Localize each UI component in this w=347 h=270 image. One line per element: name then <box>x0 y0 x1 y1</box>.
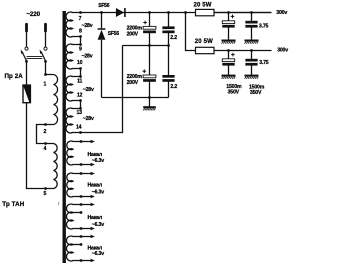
svg-text:~28v: ~28v <box>82 23 93 29</box>
filament winding 4 node top <box>80 235 83 238</box>
wire pin 10 to pin 11 <box>80 69 82 77</box>
node pin 4 <box>44 142 47 145</box>
switch blade L <box>21 50 27 62</box>
secondary winding 9-10 <box>66 44 80 69</box>
secondary winding 13-14 <box>66 108 80 133</box>
primary winding 1-2 <box>46 75 58 125</box>
svg-text:Пр 2А: Пр 2А <box>5 73 24 80</box>
svg-text:7: 7 <box>79 16 82 22</box>
wire plug L to switch <box>26 32 28 47</box>
wire plug N to switch <box>45 32 47 47</box>
node mid rail cap2 <box>167 44 170 47</box>
capacitor 2200m lower <box>143 75 156 82</box>
ground under C8 <box>245 76 259 79</box>
switch contact L <box>25 47 28 50</box>
wire pin 14 return <box>81 46 123 133</box>
resistor 20 5W upper <box>196 9 215 15</box>
node row2 C8 <box>250 49 253 52</box>
svg-text:200V: 200V <box>127 80 139 86</box>
switch contact N <box>44 47 47 50</box>
filament winding 3 arrow bottom <box>91 227 95 230</box>
svg-text:3.75: 3.75 <box>259 24 269 30</box>
svg-text:300v: 300v <box>276 10 287 16</box>
filament winding 4 node bottom <box>80 259 83 262</box>
node pin 1 <box>44 73 47 76</box>
svg-text:20 5W: 20 5W <box>195 39 213 45</box>
svg-text:350V: 350V <box>250 90 262 96</box>
wire ground rail <box>102 97 169 99</box>
filament winding 1 node top <box>80 140 83 143</box>
filament winding 1 arrow bottom <box>91 163 95 166</box>
svg-text:~220: ~220 <box>26 11 40 18</box>
node top rail to lower branch <box>184 11 187 14</box>
node ground rail <box>148 96 151 99</box>
wire row2 after resistor <box>214 50 272 52</box>
diode SF56 series <box>116 8 125 17</box>
switch blade N <box>40 50 46 62</box>
svg-text:12: 12 <box>77 93 83 99</box>
switch node L <box>25 60 28 63</box>
filament winding 1 node bottom <box>80 163 83 166</box>
plus mark C7 <box>231 53 235 57</box>
diode SF56 shunt <box>98 29 106 40</box>
capacitor 2.2 lower <box>162 75 174 82</box>
filament winding 2 node bottom <box>80 195 83 198</box>
filament winding 4 arrow bottom <box>91 259 95 262</box>
ground under C5 <box>222 41 236 44</box>
svg-text:2.2: 2.2 <box>170 84 177 90</box>
secondary winding 7-8 <box>66 12 80 37</box>
filament winding 4 tap node <box>80 243 83 246</box>
svg-text:2200m: 2200m <box>127 25 143 31</box>
node row1 C6 <box>250 11 253 14</box>
svg-text:~6.3v: ~6.3v <box>92 190 104 196</box>
wire fuse to pin 5 <box>27 103 46 189</box>
wire mid rail <box>123 45 169 47</box>
svg-text:1: 1 <box>43 81 46 87</box>
node pin 2 <box>44 123 47 126</box>
node pin 5 <box>44 187 47 190</box>
filament winding 1 <box>67 141 91 165</box>
svg-text:~6.3v: ~6.3v <box>92 222 104 228</box>
wire pin 8 to pin 9 <box>80 37 82 45</box>
svg-text:2.2: 2.2 <box>170 35 177 41</box>
capacitor 2.2 upper <box>162 26 174 33</box>
svg-text:200V: 200V <box>127 31 139 37</box>
filament winding 3 node bottom <box>80 227 83 230</box>
filament winding 4 <box>67 236 91 261</box>
filament winding 4 tap lead <box>73 244 81 246</box>
switch mechanical link <box>27 57 43 59</box>
switch node N <box>44 60 47 63</box>
wire C2 top lead <box>149 46 151 76</box>
capacitor 3.75 row2 <box>245 59 257 66</box>
transformer core <box>63 11 66 263</box>
wire C8 top lead <box>251 51 253 60</box>
node mid rail cap1 <box>148 44 151 47</box>
svg-text:Накал: Накал <box>88 152 102 158</box>
capacitor 1500m row2 <box>222 59 234 66</box>
svg-text:~28v: ~28v <box>83 87 94 93</box>
wire pin 2 to pin 4 <box>37 125 46 144</box>
node pin 10 <box>79 67 82 70</box>
wire top rail <box>81 12 272 14</box>
svg-text:SF56: SF56 <box>108 31 120 37</box>
node pin 14 <box>79 131 82 134</box>
wire ground stub <box>149 98 151 107</box>
wire C1 bottom lead <box>149 33 151 46</box>
wire C5 bottom lead <box>228 27 230 40</box>
wire C1 top lead <box>149 13 151 27</box>
filament winding 2 arrow top <box>91 172 95 175</box>
wire C4 bottom lead <box>168 82 170 98</box>
svg-text:10: 10 <box>77 60 83 66</box>
filament winding 3 tap node <box>80 211 83 214</box>
svg-text:3.75: 3.75 <box>259 60 269 66</box>
wire pin 12 to pin 13 <box>80 101 82 109</box>
svg-text:350V: 350V <box>228 90 240 96</box>
wire shunt diode anode to ground rail <box>101 40 103 98</box>
wire branch down to row2 <box>186 13 196 51</box>
node diode junction <box>100 11 103 14</box>
node pin 9 <box>79 43 82 46</box>
wire C3 top lead <box>168 13 170 27</box>
node pin 8 <box>79 35 82 38</box>
svg-text:2: 2 <box>43 129 46 135</box>
wire C6 top lead <box>251 13 253 22</box>
filament winding 3 <box>67 204 91 229</box>
wire shunt diode cathode <box>101 13 103 29</box>
svg-text:8: 8 <box>79 29 82 35</box>
capacitor 1500m row1 <box>222 21 234 28</box>
node top rail cap C3 <box>167 11 170 14</box>
plus mark C1 <box>143 21 147 25</box>
wire row1 after resistor <box>214 12 272 14</box>
svg-text:9: 9 <box>79 46 82 52</box>
wire C2 bottom lead <box>149 82 151 98</box>
node pin 12 <box>79 99 82 102</box>
fuse Пр 2А <box>23 85 31 103</box>
filament winding 2 node top <box>80 172 83 175</box>
resistor 20 5W lower <box>196 47 215 53</box>
filament winding 2 arrow bottom <box>91 195 95 198</box>
filament winding 3 node top <box>80 203 83 206</box>
svg-text:300v: 300v <box>277 48 288 54</box>
mains plug pin N <box>44 23 47 33</box>
filament winding 1 arrow top <box>91 140 95 143</box>
wire C7 bottom lead <box>228 65 230 75</box>
ground under C7 <box>222 76 236 79</box>
capacitor 2200m upper <box>143 26 156 33</box>
wire C5 top lead <box>228 13 230 22</box>
wire C8 bottom lead <box>251 65 253 75</box>
svg-text:SF56: SF56 <box>98 3 110 9</box>
svg-text:~6.3v: ~6.3v <box>92 251 104 257</box>
svg-text:~6.3v: ~6.3v <box>92 158 104 164</box>
svg-text:13: 13 <box>77 110 83 116</box>
ground under C6 <box>245 41 259 44</box>
svg-text:Накал: Накал <box>88 215 102 221</box>
node pin 7 <box>79 11 82 14</box>
core polarity tick <box>58 202 60 205</box>
filament winding 4 arrow top <box>91 235 95 238</box>
wire switch L to fuse <box>26 61 28 85</box>
ground symbol main <box>143 107 156 110</box>
svg-text:11: 11 <box>77 78 82 84</box>
capacitor 3.75 row1 <box>245 21 257 28</box>
svg-text:14: 14 <box>76 125 82 131</box>
filament winding 3 tap lead <box>73 212 81 214</box>
node pin 11 <box>79 75 82 78</box>
filament winding 2 <box>67 173 91 197</box>
svg-text:Накал: Накал <box>88 183 102 189</box>
svg-text:4: 4 <box>43 146 46 152</box>
primary winding 4-5 <box>46 144 58 189</box>
svg-text:5: 5 <box>43 191 46 197</box>
svg-text:2200m: 2200m <box>127 74 143 80</box>
filament winding 3 arrow top <box>91 203 95 206</box>
node top rail cap C1 <box>148 11 151 14</box>
secondary winding 11-12 <box>66 76 80 101</box>
wire C6 bottom lead <box>251 27 253 40</box>
wire C4 top lead <box>168 46 170 76</box>
wire C7 top lead <box>228 51 230 60</box>
svg-text:Тр ТАН: Тр ТАН <box>2 201 24 208</box>
wire C3 bottom lead <box>168 33 170 46</box>
node row1 C5 <box>227 11 230 14</box>
svg-text:20 5W: 20 5W <box>194 2 212 8</box>
node pin 13 <box>79 107 82 110</box>
svg-text:~28v: ~28v <box>82 54 93 60</box>
mains plug pin L <box>25 23 28 33</box>
wire switch N to pin 1 <box>45 61 47 74</box>
node row2 C7 <box>227 49 230 52</box>
plus mark C2 <box>143 69 147 73</box>
svg-text:~28v: ~28v <box>83 116 94 122</box>
plus mark C5 <box>231 15 235 19</box>
